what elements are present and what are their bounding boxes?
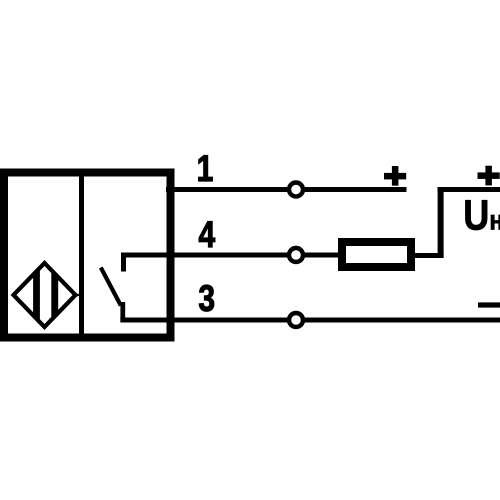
terminal circle pin 1: [289, 183, 303, 197]
wire 3 (pin 3 to right edge): [120, 318, 500, 323]
plus sign (wire 1 supply +): [384, 166, 406, 186]
svg-text:1: 1: [197, 148, 214, 190]
resistor (load): [342, 242, 411, 267]
svg-text:3: 3: [198, 278, 215, 320]
wire 1 (pin 1 to +): [166, 187, 407, 192]
switch upper stub (from wire 4): [121, 253, 126, 272]
load supply wire (top right): [438, 187, 500, 192]
wire 4 (pin 4 to resistor): [121, 253, 338, 258]
pin label 3: [198, 278, 215, 320]
wire resistor to load branch: [415, 253, 444, 258]
terminal circle pin 4: [289, 248, 303, 262]
minus sign (load -): [478, 302, 500, 307]
terminal circle pin 3: [289, 313, 303, 327]
switch lower stub (to wire 3): [120, 302, 125, 322]
load branch vertical wire: [438, 187, 444, 258]
load voltage label Uн: [463, 192, 500, 240]
sensor body box: [4, 173, 171, 338]
proximity sensor symbol (diamond): [14, 263, 76, 327]
switch arm (normally open contact): [101, 268, 121, 306]
connector diamond to divider: [74, 294, 80, 296]
svg-text:4: 4: [198, 214, 215, 256]
pin label 4: [198, 214, 215, 256]
box divider: [79, 177, 84, 334]
plus sign (load +): [478, 166, 500, 186]
pin label 1: [197, 148, 214, 190]
